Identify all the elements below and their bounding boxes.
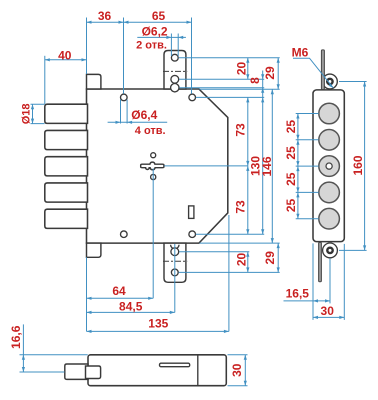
right ext line bottom tab hole2 <box>179 251 249 253</box>
arrows 25 chain <box>296 114 299 219</box>
bottom view ext bolt center <box>20 371 65 373</box>
side dim line 25 chain <box>297 114 299 219</box>
text 160 rotated <box>351 155 365 175</box>
dim line 8 <box>262 71 264 98</box>
faceplate bottom tab hole 2 <box>171 248 179 256</box>
svg-text:25: 25 <box>284 172 298 186</box>
svg-text:2 отв.: 2 отв. <box>136 40 167 52</box>
svg-text:65: 65 <box>152 9 166 23</box>
bottom view slot <box>160 363 190 367</box>
lock body outline (front view) <box>87 89 228 243</box>
arrows 20 top <box>246 58 249 80</box>
svg-text:30: 30 <box>230 363 244 377</box>
text 20 bottom rotated <box>235 253 249 267</box>
svg-text:73: 73 <box>233 123 247 137</box>
centerline top tab <box>163 70 187 72</box>
dim line 146 <box>271 89 273 243</box>
bottom boss ring <box>327 248 332 253</box>
svg-text:30: 30 <box>321 304 335 318</box>
bottom view tab <box>86 366 101 379</box>
dia6.2 shelf line <box>137 36 186 38</box>
extension line 65 right end <box>191 18 193 94</box>
faceplate top tab <box>164 51 186 90</box>
dim line 30 side <box>313 316 344 318</box>
right ext line tab hole2 <box>179 78 264 80</box>
arrows 29 top <box>277 58 280 89</box>
right ext line corner hole bottom <box>196 233 264 235</box>
svg-text:20: 20 <box>235 253 249 267</box>
side ext lines 25 chain <box>296 114 319 219</box>
dia6.4 ticks <box>121 100 128 124</box>
svg-text:64: 64 <box>112 284 126 298</box>
extension line body left top <box>86 18 88 75</box>
text 20 top rotated <box>234 62 248 76</box>
svg-text:84,5: 84,5 <box>119 299 143 313</box>
small hole above keyhole <box>151 153 156 158</box>
ext line body right down <box>228 215 230 331</box>
text dia18 rotated <box>21 104 33 125</box>
svg-text:73: 73 <box>233 200 247 214</box>
dia18 dimension line <box>32 104 34 123</box>
text 29 bottom rotated <box>263 251 277 265</box>
arrows 73 bottom <box>246 166 249 234</box>
side view faceplate <box>313 90 344 242</box>
side view cylinder 4 <box>319 182 340 203</box>
svg-text:M6: M6 <box>292 46 309 60</box>
bolt 2 <box>45 130 88 149</box>
bottom-left tab on body <box>87 243 101 257</box>
bolt 3 <box>45 157 88 176</box>
svg-text:29: 29 <box>263 251 277 265</box>
svg-text:Ø18: Ø18 <box>21 104 33 125</box>
bottom view body <box>88 355 226 386</box>
arrows 135 <box>87 330 229 333</box>
M6 screw stud top <box>321 50 324 90</box>
svg-text:135: 135 <box>148 317 168 331</box>
side view cylinder 1 <box>319 103 340 124</box>
svg-text:16,5: 16,5 <box>286 287 310 301</box>
dia6.2 ticks <box>171 34 178 57</box>
M6 screw stud bottom <box>319 242 322 281</box>
dim line 16.5 <box>284 300 331 302</box>
mounting hole bottom-left <box>121 231 128 238</box>
side ext lines 160 <box>339 82 367 251</box>
arrows dia6.2 outside <box>166 36 183 39</box>
right ext line keyhole <box>164 165 248 167</box>
arrows 146 <box>271 89 274 243</box>
dimension line 36-65 <box>87 21 192 23</box>
dim line 160 <box>364 82 366 251</box>
side ext boss center down <box>329 259 331 304</box>
side view bottom boss circle <box>323 243 338 258</box>
text 29 top rotated <box>263 66 277 80</box>
ext line body left down <box>86 257 88 331</box>
small hole below keyhole <box>151 174 156 179</box>
dim line 84.5 <box>87 311 175 313</box>
text 73 bottom rotated <box>233 200 247 214</box>
dim line 16.6 <box>22 324 24 372</box>
dim line 20 bottom <box>247 252 249 273</box>
bolt 1 <box>45 104 88 123</box>
arrows 20 bottom <box>246 252 249 273</box>
svg-text:25: 25 <box>284 199 298 213</box>
dia6.4 shelf line <box>108 121 168 123</box>
right ext line body bottom edge <box>200 242 280 244</box>
arrows 64 <box>87 297 154 300</box>
dim line 64 <box>87 297 154 299</box>
text 130 rotated <box>249 156 263 176</box>
keyhole (double-bit key profile) <box>141 162 164 170</box>
M6 leader <box>293 58 333 88</box>
side ext plate left down <box>312 243 314 320</box>
arrows 29 bottom <box>277 243 280 272</box>
mounting hole top-left <box>121 94 128 101</box>
arrows 8 outside <box>261 74 264 92</box>
arrows 36 <box>87 21 129 24</box>
side view cylinder 5 <box>319 208 340 229</box>
arrows 130 <box>261 97 264 234</box>
arrows 30 side <box>313 316 344 319</box>
svg-text:160: 160 <box>351 155 365 175</box>
arrows 16.6 <box>22 355 25 372</box>
mounting hole top-right <box>189 94 196 101</box>
arrows 160 <box>363 82 366 251</box>
svg-text:Ø6,4: Ø6,4 <box>131 108 157 122</box>
dia18 extension ticks <box>31 104 45 123</box>
top boss ring <box>327 79 332 84</box>
bolt 4 <box>45 183 88 202</box>
arrows dia18 <box>31 104 34 123</box>
faceplate top tab hole 1 <box>171 54 178 61</box>
right ext line body top edge <box>200 88 280 90</box>
svg-text:25: 25 <box>284 120 298 134</box>
svg-text:146: 146 <box>260 156 274 176</box>
bottom view bolt <box>65 364 88 379</box>
dim line 29 bottom <box>277 243 279 272</box>
text 8 rotated <box>248 77 262 84</box>
dim line 135 <box>87 330 229 332</box>
right ext line bottom tab hole1 <box>179 271 280 273</box>
arrows dia6.4 outside <box>116 121 133 124</box>
svg-text:20: 20 <box>234 62 248 76</box>
rectangular slot near bottom-right of body <box>189 206 194 219</box>
arrows 84.5 <box>87 311 175 314</box>
dim line 73 top <box>247 97 249 165</box>
bottom view cap line <box>197 355 199 386</box>
side view cylinder 2 <box>319 130 340 151</box>
text 16,6 rotated <box>9 325 23 349</box>
arrow M6 leader <box>329 83 334 88</box>
side view top boss circle <box>323 74 338 89</box>
arrows 16.5 <box>313 299 330 302</box>
bottom view ext top edge <box>20 354 88 356</box>
extension line bolt tip <box>44 56 46 104</box>
text 146 rotated <box>260 156 274 176</box>
mounting hole bottom-right <box>189 231 196 238</box>
dim line 73 bottom <box>247 166 249 234</box>
bolt 5 <box>45 209 88 228</box>
side view cylinder 3 with center hole <box>319 156 340 177</box>
right ext line tab hole3 <box>179 87 264 89</box>
dimension line 40 <box>45 59 87 61</box>
svg-text:36: 36 <box>98 9 112 23</box>
faceplate top tab hole 3 (clipped by body edge) <box>171 84 179 92</box>
ext line key center down <box>152 169 154 299</box>
arrows 73 top <box>246 97 249 165</box>
dim line 20 top <box>247 58 249 80</box>
svg-text:25: 25 <box>284 146 298 160</box>
texts 25 rotated <box>284 120 298 134</box>
extension line hole column left <box>123 18 125 94</box>
faceplate bottom tab <box>164 243 186 282</box>
svg-text:8: 8 <box>248 77 262 84</box>
dim line 130 <box>262 97 264 234</box>
faceplate bottom tab hole 3 (clipped by body edge) <box>171 245 179 249</box>
svg-text:29: 29 <box>263 66 277 80</box>
dim line 30 bottom <box>244 355 246 386</box>
svg-text:4 отв.: 4 отв. <box>135 125 166 137</box>
side ext plate right down <box>343 244 345 320</box>
dim line 29 top <box>277 58 279 89</box>
centerline bottom tab <box>163 260 187 262</box>
arrows 30 bottom <box>244 355 247 386</box>
top-left tab on body <box>87 74 101 89</box>
text 30 bottom rotated <box>230 363 244 377</box>
ext line tab holes down <box>174 244 176 312</box>
faceplate top tab hole 2 <box>171 75 179 83</box>
faceplate bottom tab hole 1 <box>171 269 178 276</box>
svg-text:16,6: 16,6 <box>9 325 23 349</box>
right ext line corner hole top <box>196 96 264 98</box>
svg-text:40: 40 <box>58 48 72 62</box>
bottom view ticks 30 <box>228 355 248 386</box>
text 73 top rotated <box>233 123 247 137</box>
arrows 40 <box>45 58 87 61</box>
right ext line tab hole1 <box>179 57 280 59</box>
svg-text:Ø6,2: Ø6,2 <box>142 24 168 38</box>
arrows 65 <box>187 21 192 24</box>
